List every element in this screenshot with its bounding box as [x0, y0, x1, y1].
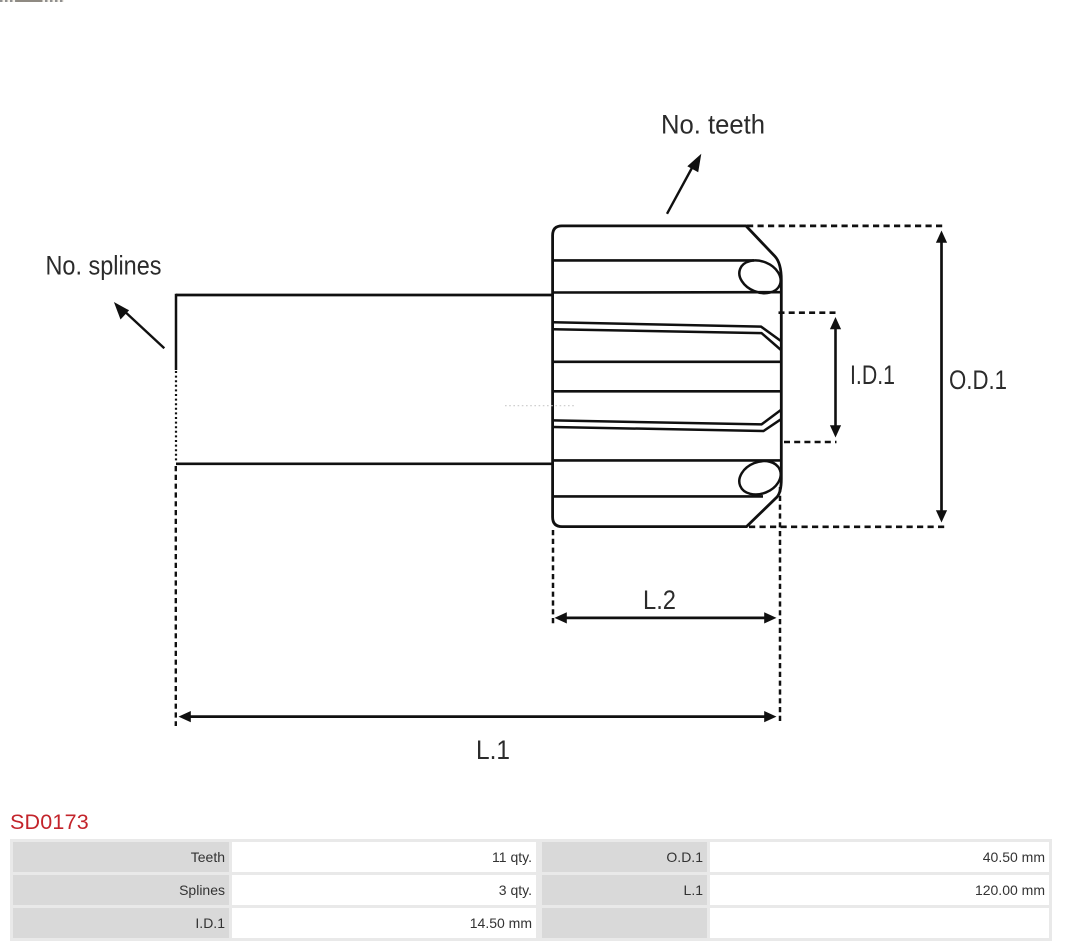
- O.D.1 arrow line: [940, 240, 943, 513]
- I.D.1 arrowhead top: [830, 317, 841, 329]
- lower spline wedge: [553, 410, 781, 431]
- gear tooth line y293: [553, 291, 781, 294]
- svg-text:No. splines: No. splines: [46, 251, 162, 281]
- svg-text:I.D.1: I.D.1: [850, 360, 895, 390]
- top-left cropped artifact strip: [0, 0, 64, 2]
- shaft left edge solid part: [175, 294, 178, 370]
- svg-text:No. teeth: No. teeth: [661, 110, 765, 140]
- I.D.1 bottom extension dashed line: [784, 441, 837, 444]
- svg-text:L.1: L.1: [476, 735, 510, 765]
- gear tooth line y362: [553, 360, 781, 363]
- O.D.1 bottom extension dashed line: [749, 525, 946, 528]
- I.D.1 top extension dashed line: [779, 311, 837, 314]
- part number: [10, 810, 89, 835]
- L.1 arrow line: [188, 715, 767, 718]
- No. teeth arrowhead: [687, 154, 701, 172]
- shaft bottom line: [176, 462, 553, 465]
- shaft top line: [176, 294, 553, 297]
- No. splines leader arrow: [124, 311, 164, 349]
- right extension dashed line (gear right): [779, 487, 782, 724]
- gear tooth line y260: [553, 259, 754, 262]
- I.D.1 arrowhead bottom: [830, 425, 841, 437]
- L.2 arrow line: [564, 617, 767, 620]
- L.1 arrowhead right: [764, 711, 776, 722]
- faint centerline: [505, 405, 574, 407]
- shaft left edge dotted part: [175, 371, 177, 463]
- No. splines arrowhead: [114, 302, 129, 320]
- top-right tooth profile arc: [734, 255, 785, 300]
- O.D.1 arrowhead top: [936, 231, 947, 243]
- L.1 left extension dashed line: [175, 466, 177, 726]
- I.D.1 arrow line: [834, 326, 837, 429]
- O.D.1 top extension dashed line: [747, 225, 946, 228]
- L.1 arrowhead left: [179, 711, 191, 722]
- L.2 arrowhead left: [555, 612, 567, 623]
- O.D.1 arrowhead bottom: [936, 510, 947, 522]
- gear outline: [553, 226, 782, 527]
- svg-text:L.2: L.2: [643, 585, 676, 615]
- svg-text:O.D.1: O.D.1: [949, 365, 1007, 395]
- gear tooth line y461: [553, 459, 781, 462]
- gear tooth line y391: [553, 390, 781, 393]
- L.2 arrowhead right: [764, 612, 776, 623]
- upper spline wedge: [553, 322, 782, 350]
- No. teeth leader arrow: [667, 166, 693, 214]
- bottom-right tooth profile arc: [734, 455, 786, 500]
- gear tooth line y496: [553, 495, 763, 498]
- specification tables: [10, 839, 1052, 941]
- L.2 left extension dashed line: [552, 530, 555, 626]
